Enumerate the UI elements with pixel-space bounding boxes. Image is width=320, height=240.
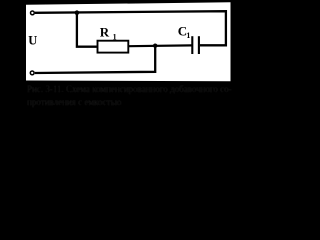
wire: resistor right lead to capacitor left plate [129, 44, 192, 47]
wire: drop from node B down and left to bottom terminal [35, 46, 155, 73]
node B junction dot on middle wire [153, 44, 157, 48]
capacitor C1 right plate [198, 36, 200, 54]
terminal (bottom input) [30, 71, 34, 75]
svg-text:противления с емкостью: противления с емкостью [27, 97, 122, 107]
svg-text:1: 1 [113, 32, 117, 41]
wire: top bus from terminal to top-right corner, down right riser, left to capacitor right plate [35, 11, 226, 45]
node A junction dot on top bus [75, 10, 80, 15]
capacitor C1 left plate [191, 36, 193, 54]
figure panel (white background of schematic) [26, 2, 231, 81]
svg-text:R: R [100, 24, 110, 39]
svg-text:Рис. 3-11. Схема компенсирован: Рис. 3-11. Схема компенсированного добав… [27, 84, 232, 94]
svg-text:1: 1 [186, 31, 190, 40]
terminal (top input) [31, 11, 35, 15]
wire: drop from top bus junction down to resistor left lead [77, 13, 97, 47]
resistor R1 (box) [98, 41, 129, 53]
svg-text:U: U [28, 34, 37, 48]
